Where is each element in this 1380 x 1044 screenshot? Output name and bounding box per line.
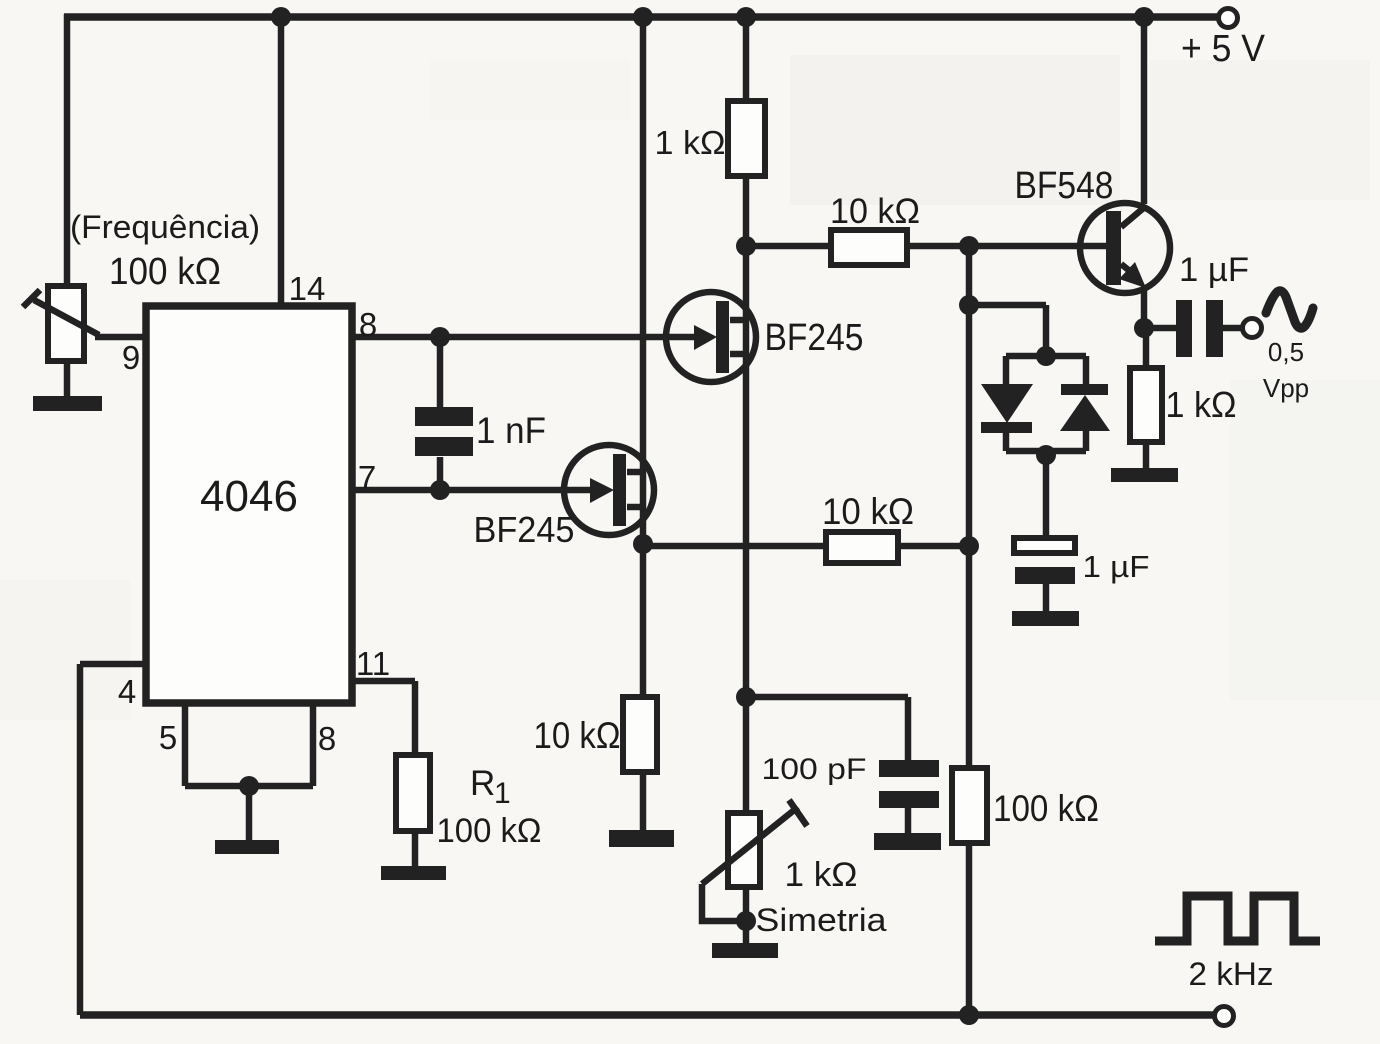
svg-text:10 kΩ: 10 kΩ xyxy=(822,491,914,532)
svg-text:BF245: BF245 xyxy=(765,317,864,359)
svg-text:Simetria: Simetria xyxy=(756,902,887,938)
svg-text:1 kΩ: 1 kΩ xyxy=(785,856,858,894)
svg-text:1 µF: 1 µF xyxy=(1083,549,1150,584)
svg-text:1 kΩ: 1 kΩ xyxy=(1166,384,1237,425)
svg-text:BF245: BF245 xyxy=(474,509,575,550)
svg-text:10 kΩ: 10 kΩ xyxy=(534,715,621,756)
svg-text:(Frequência): (Frequência) xyxy=(70,209,260,245)
svg-text:11: 11 xyxy=(356,645,390,682)
svg-text:9: 9 xyxy=(122,339,140,376)
svg-text:1 kΩ: 1 kΩ xyxy=(655,124,726,161)
svg-text:+ 5 V: + 5 V xyxy=(1181,28,1266,70)
svg-text:100 kΩ: 100 kΩ xyxy=(993,788,1099,829)
svg-text:BF548: BF548 xyxy=(1015,165,1114,207)
svg-text:1 µF: 1 µF xyxy=(1179,251,1249,289)
svg-text:100 pF: 100 pF xyxy=(762,753,867,786)
svg-text:14: 14 xyxy=(289,270,326,307)
svg-text:2 kHz: 2 kHz xyxy=(1189,956,1274,992)
svg-text:100 kΩ: 100 kΩ xyxy=(109,251,221,293)
svg-text:R: R xyxy=(470,764,495,803)
svg-text:0,5: 0,5 xyxy=(1268,337,1304,367)
svg-text:8: 8 xyxy=(318,720,336,757)
svg-text:8: 8 xyxy=(359,306,377,343)
svg-text:1 nF: 1 nF xyxy=(476,410,546,451)
svg-text:Vpp: Vpp xyxy=(1263,373,1309,403)
svg-text:7: 7 xyxy=(358,459,376,496)
svg-text:4046: 4046 xyxy=(200,472,298,521)
svg-text:5: 5 xyxy=(159,719,177,756)
svg-text:1: 1 xyxy=(494,777,511,810)
svg-text:100 kΩ: 100 kΩ xyxy=(437,812,542,850)
svg-text:10 kΩ: 10 kΩ xyxy=(830,192,920,231)
svg-text:4: 4 xyxy=(118,673,136,710)
